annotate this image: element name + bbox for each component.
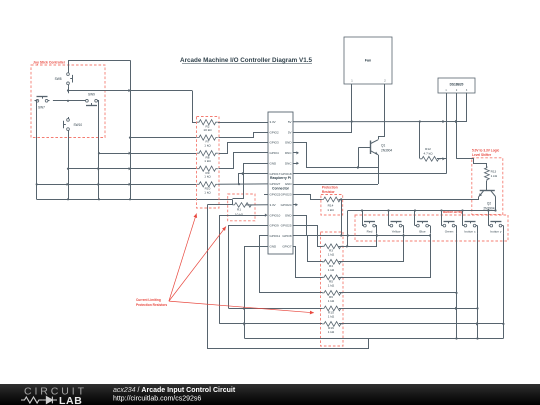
node SW7-rail (36, 183, 38, 185)
wire R8 to GPIO3 (219, 143, 269, 154)
wire GPIO25 to R3 (293, 226, 323, 247)
svg-text:Level Shifter: Level Shifter (472, 153, 492, 157)
svg-text:LAB: LAB (59, 395, 82, 405)
joystick enclosure box (31, 65, 105, 138)
arrow into GPIO10 pin (265, 214, 268, 217)
pushbutton Green (440, 209, 456, 233)
svg-text:SW7: SW7 (38, 106, 45, 110)
junction x99 y168.7 (98, 167, 101, 170)
svg-text:GPIO9: GPIO9 (270, 224, 280, 228)
node green-rail (455, 292, 457, 294)
svg-text:1 kΩ: 1 kΩ (328, 268, 335, 272)
component Fan (344, 37, 392, 84)
node SW10-rail (67, 168, 69, 170)
svg-text:1 kΩ: 1 kΩ (204, 175, 211, 179)
wire R13 to Q2 base (486, 181, 488, 191)
wire R1 right to 3.3V2 (246, 204, 269, 206)
wire R7 to GPIO2 (219, 133, 269, 138)
svg-text:Protection Resistors: Protection Resistors (136, 303, 167, 307)
rail 5V (293, 121, 467, 123)
connector U-RPi Raspberry Pi (268, 112, 293, 254)
wire Q2 emitter to R14 rail (339, 197, 479, 200)
wire GND3 route (293, 143, 379, 168)
svg-text:GPIO25: GPIO25 (281, 224, 292, 228)
svg-text:Protection: Protection (322, 186, 338, 190)
stub DNC2 (293, 162, 299, 165)
junction gnd13-324 (243, 322, 246, 325)
stub GPIO24 (293, 203, 298, 206)
svg-text:GPIO4: GPIO4 (270, 151, 280, 155)
joystick box label (33, 61, 66, 65)
wire SW7-SW9 row (53, 100, 84, 102)
rail buttony (219, 233, 503, 338)
resistor R5 1k (322, 275, 343, 288)
title (180, 57, 312, 64)
svg-text:1 kΩ: 1 kΩ (328, 315, 335, 319)
junction GND col crossing GPIO17 (242, 172, 245, 175)
node rail211-gnd (347, 234, 349, 236)
wire R1 left lead (208, 204, 233, 206)
resistor R9 (197, 166, 218, 179)
wire rail into R1 left (232, 199, 234, 205)
junction x130 y153 (129, 152, 132, 155)
resistor R2 (197, 120, 218, 133)
svg-text:DS18B20: DS18B20 (450, 82, 464, 86)
svg-text:Raspberry Pi: Raspberry Pi (270, 176, 291, 180)
svg-text:SW10: SW10 (74, 123, 83, 127)
svg-text:R1: R1 (237, 207, 241, 211)
svg-text:1 kΩ: 1 kΩ (327, 208, 334, 212)
switch SW8 (55, 71, 73, 86)
wire Q1 collector to 5V (379, 122, 385, 140)
transistor Q2 2N3904 (479, 191, 496, 211)
footer text (113, 387, 236, 403)
wire R2 to 3.3V pin (218, 122, 268, 124)
junction rail211-R3 (346, 245, 349, 248)
resistor R8 (197, 151, 218, 164)
rail GND7 to emitter (293, 184, 378, 186)
wire DS pin1 down (446, 93, 448, 174)
pushbutton Red (361, 209, 377, 233)
junction at x130 y90 (128, 89, 131, 92)
node SW9-rail (98, 152, 100, 154)
svg-text:2N3904: 2N3904 (381, 149, 392, 153)
button array label (443, 210, 463, 214)
wire R12 left up (419, 122, 421, 159)
svg-text:Green: Green (445, 230, 454, 234)
rail y184.3 from SW7 (37, 184, 197, 186)
svg-text:Red: Red (367, 230, 373, 234)
node R10 branch (238, 183, 240, 185)
pushbutton Yellow (387, 209, 403, 233)
resistor R13 1k (485, 166, 498, 181)
R14 enclosure (321, 195, 343, 216)
button array enclosure (355, 215, 508, 241)
svg-text:GND: GND (285, 213, 293, 217)
wire R7 left (130, 137, 197, 139)
node x68 y199.3 (67, 198, 69, 200)
svg-text:GPIO10: GPIO10 (270, 213, 281, 217)
svg-text:GND: GND (270, 161, 278, 165)
stub DNC1 (293, 151, 299, 154)
node x130 y199.3 (129, 198, 131, 200)
wire GND pin down to R1 (233, 164, 269, 199)
svg-text:Fan: Fan (365, 59, 371, 63)
transistor Q1 2N3904 (359, 140, 393, 155)
svg-text:GPIO22: GPIO22 (270, 193, 281, 197)
wire R5 to Blue (339, 234, 431, 278)
rail GPIO10 (220, 216, 267, 324)
svg-text:1 kΩ: 1 kΩ (204, 144, 211, 148)
resistor R12 4.7k (420, 147, 441, 161)
node c-rail (476, 307, 478, 309)
svg-text:SW9: SW9 (88, 93, 95, 97)
node SW7row-x68 (67, 100, 69, 102)
bottom rail (245, 338, 504, 340)
svg-text:5V: 5V (288, 120, 292, 124)
rail y199.3 ground-ish (37, 199, 232, 201)
svg-text:button c: button c (464, 230, 475, 234)
node fan pin1 5V (351, 120, 353, 122)
switch SW7 (35, 96, 50, 109)
resistor R10 (197, 182, 218, 195)
junction gnd13-308 (243, 307, 246, 310)
rail GPIO18 (293, 173, 446, 175)
wire Yellow lead (376, 226, 378, 234)
wire x207 long down (208, 205, 369, 349)
resistor R4 1k (322, 259, 343, 272)
pushbutton button y (487, 209, 503, 233)
wire R10 to GPIO27 (218, 183, 268, 185)
junction green-308 (455, 307, 458, 310)
junction DS pin1 on 5V (442, 120, 445, 123)
svg-text:button y: button y (490, 230, 501, 234)
pushbutton Blue (414, 209, 430, 233)
svg-text:Q2: Q2 (487, 202, 491, 206)
svg-text:GPIO8: GPIO8 (282, 234, 292, 238)
node gnd-r14col (340, 234, 342, 236)
wire Q1 emitter down (378, 155, 380, 184)
svg-text:GPIO7: GPIO7 (282, 244, 292, 248)
svg-text:DNC: DNC (285, 161, 292, 165)
rail GPIO9 down (229, 226, 269, 309)
rail y153 from SW9 (99, 153, 197, 155)
wire SW9 right down (98, 101, 100, 200)
svg-text:GPIO11: GPIO11 (270, 234, 281, 238)
svg-text:3.3V: 3.3V (270, 120, 276, 124)
node c-bot (476, 337, 478, 339)
node R14 down branch (340, 198, 342, 200)
wire R9 to GPIO4 (219, 153, 269, 169)
wire GPIO23 to R14 (293, 195, 322, 200)
resistor R6 1k (322, 291, 343, 304)
bottom stack enclosure (321, 232, 344, 346)
level shifter label (472, 148, 500, 157)
resistor R15 1k (322, 306, 343, 319)
svg-text:1 kΩ: 1 kΩ (491, 174, 498, 178)
arrow to R10 stack (169, 214, 197, 302)
arrow to R15 (169, 301, 314, 314)
svg-text:Resistor: Resistor (322, 190, 336, 194)
wire GPIO8 to R4 (293, 236, 323, 262)
switch SW9 (84, 93, 99, 106)
node gnd-red (376, 234, 378, 236)
svg-text:Joy Stick Controller: Joy Stick Controller (33, 61, 66, 65)
svg-text:5.0V to 3.3V Logic: 5.0V to 3.3V Logic (472, 148, 500, 152)
wire R14 down col (341, 199, 343, 235)
node R7 tap on x130 (129, 137, 131, 139)
resistor R16 1k (322, 322, 343, 335)
wire GPIO7 to R5 (293, 247, 323, 278)
wire DS pin3 to rail (459, 93, 467, 122)
svg-text:GPIO3: GPIO3 (270, 141, 280, 145)
svg-text:1 kΩ: 1 kΩ (204, 190, 211, 194)
svg-text:5V: 5V (288, 130, 292, 134)
wire fan pin1 (351, 84, 353, 122)
wire common rail y90 (68, 90, 192, 92)
svg-text:Q1: Q1 (381, 144, 385, 148)
node x99 y199.3 (98, 198, 100, 200)
button right leads (377, 226, 504, 234)
arrow to R1 box (169, 227, 226, 302)
junction x68 y184.3 (67, 183, 70, 186)
node gnd-blue (429, 234, 431, 236)
rail buttonc (229, 233, 478, 338)
pushbutton button c (461, 209, 477, 233)
wire SW10 down (68, 132, 70, 199)
footer bar (0, 384, 540, 405)
wire GPIO11 to R6 (260, 236, 323, 293)
svg-text:R14: R14 (328, 203, 334, 207)
node R12 top (419, 120, 421, 122)
wire SW7 left down (37, 101, 38, 200)
rail y168.7 from SW10 (68, 168, 197, 170)
R14 label (322, 186, 338, 195)
svg-text:R12: R12 (425, 147, 431, 151)
wire GND10 route (293, 216, 431, 236)
junction x130 y184.3 (129, 183, 132, 186)
wire SW8 bottom to rail (68, 86, 70, 93)
junction R12-DS1 (442, 157, 445, 160)
resistor R3 1k (322, 244, 343, 257)
node green-bot (455, 337, 457, 339)
svg-text:1 kΩ: 1 kΩ (328, 330, 335, 334)
svg-text:1 kΩ: 1 kΩ (328, 284, 335, 288)
wire fan pin2 (384, 84, 386, 122)
wire R10 up to GPIO17 (239, 174, 269, 185)
svg-text:Yellow: Yellow (392, 230, 402, 234)
svg-text:1 kΩ: 1 kΩ (328, 253, 335, 257)
wire Q1 base down (358, 147, 360, 167)
svg-text:Blue: Blue (419, 230, 425, 234)
wire 5V row2 riser (293, 122, 352, 133)
svg-text:Arcade Machine I/O Controller: Arcade Machine I/O Controller Diagram V1… (180, 57, 312, 64)
svg-text:GND: GND (285, 141, 293, 145)
wire x130 vertical (130, 60, 132, 199)
node SW8-common (67, 89, 69, 91)
svg-text:GPIO2: GPIO2 (270, 130, 280, 134)
svg-text:DNC: DNC (285, 151, 292, 155)
svg-text:4.7 kΩ: 4.7 kΩ (423, 151, 433, 155)
resistor R14 1k (322, 197, 343, 212)
wire Q2 collector down (495, 197, 497, 211)
svg-text:10 kΩ: 10 kΩ (203, 128, 212, 132)
resistor R1 (233, 203, 254, 217)
wire Green col (339, 233, 457, 338)
wire rail211 left col (347, 211, 349, 247)
svg-text:Connector: Connector (272, 187, 290, 191)
rail GND13 down (245, 247, 269, 339)
node gnd-yellow (402, 234, 404, 236)
wire data to R13 (457, 159, 487, 168)
junction c-324 (476, 322, 479, 325)
svg-text:GPIO24: GPIO24 (281, 203, 292, 207)
svg-text:SW8: SW8 (55, 77, 62, 81)
svg-text:GPIO23: GPIO23 (281, 193, 292, 197)
wire SW8 top loop (69, 61, 131, 72)
arrow pin3 join (455, 120, 458, 123)
node y-324 (502, 323, 504, 325)
svg-text:R13: R13 (491, 169, 497, 173)
wire riser to R2 (193, 91, 197, 123)
wire R12 right (437, 158, 446, 160)
svg-text:GND: GND (270, 244, 278, 248)
svg-text:http://circuitlab.com/cs292s6: http://circuitlab.com/cs292s6 (113, 396, 201, 403)
junction base col (357, 166, 360, 169)
current limiting label (136, 298, 167, 307)
stub GPIO22 (264, 194, 268, 196)
junction x99 y184.3 (98, 183, 101, 186)
resistor R7 (197, 135, 218, 148)
buttons common rail (348, 210, 496, 212)
R1 enclosure (228, 194, 255, 221)
wire DS pin2 down (456, 93, 458, 159)
svg-text:1 kΩ: 1 kΩ (204, 159, 211, 163)
svg-text:acx234 / Arcade Input Control: acx234 / Arcade Input Control Circuit (113, 387, 236, 394)
junction x130 y168.7 (129, 167, 132, 170)
switch SW10 (63, 117, 82, 132)
node Q2 collector rail (494, 209, 496, 211)
component DS18B20 (438, 78, 475, 93)
CircuitLab logo (21, 386, 87, 405)
svg-text:1 kΩ: 1 kΩ (328, 299, 335, 303)
svg-text:Current Limiting: Current Limiting (136, 298, 161, 302)
wire R3 to Red (339, 234, 377, 247)
resistor stack box (197, 117, 220, 209)
level shifter enclosure (472, 158, 503, 215)
svg-text:3.3V: 3.3V (270, 203, 276, 207)
wire R4 to Yellow (339, 234, 404, 262)
